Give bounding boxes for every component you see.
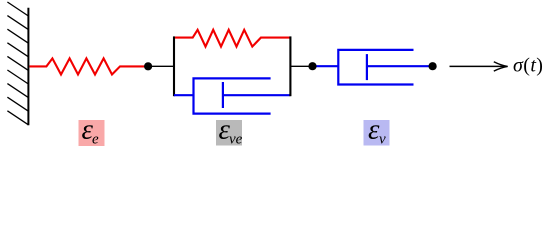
svg-text:e: e xyxy=(92,132,99,148)
arrow for applied stress xyxy=(450,62,508,71)
spring S1 (elastic) xyxy=(30,58,149,74)
fixed wall support xyxy=(7,2,28,125)
label epsilon_ve xyxy=(216,114,243,148)
wire right bar to node B xyxy=(290,65,312,67)
left bar of Kelvin-Voigt xyxy=(173,36,175,96)
node C xyxy=(429,62,437,70)
label epsilon_e xyxy=(79,114,105,148)
label epsilon_v xyxy=(364,114,390,148)
svg-text:σ(t): σ(t) xyxy=(513,55,543,77)
node A xyxy=(144,62,152,70)
dashpot D1 (bottom branch of Kelvin-Voigt) xyxy=(174,78,290,113)
dashpot D2 (viscous) xyxy=(313,50,433,85)
wire node A to left bar xyxy=(148,65,174,67)
svg-text:ve: ve xyxy=(229,132,243,148)
node B xyxy=(308,62,316,70)
right bar of Kelvin-Voigt xyxy=(289,36,291,96)
svg-text:v: v xyxy=(379,132,386,148)
spring S2 (top branch of Kelvin-Voigt) xyxy=(175,30,290,47)
